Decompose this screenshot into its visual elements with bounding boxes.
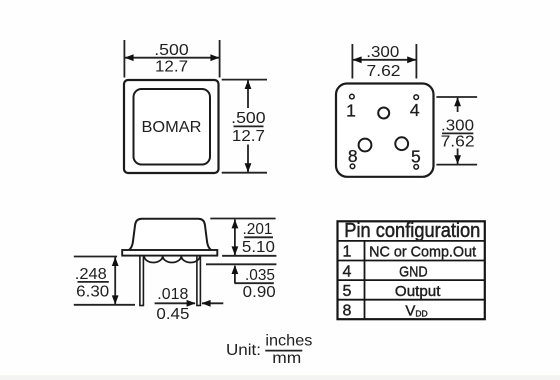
dimension .035/0.90 (standoff) bbox=[206, 264, 276, 301]
svg-text:.300: .300 bbox=[441, 117, 474, 134]
top view outline bbox=[124, 80, 219, 173]
svg-text:.201: .201 bbox=[243, 221, 273, 238]
dimension .300/7.62 horizontal (pin spacing) bbox=[352, 44, 416, 80]
svg-text:7.62: 7.62 bbox=[441, 134, 475, 151]
dimension .500/12.7 horizontal (top view width) bbox=[124, 40, 219, 78]
svg-text:5: 5 bbox=[411, 147, 421, 167]
side view lead left bbox=[140, 254, 144, 306]
svg-text:BOMAR: BOMAR bbox=[142, 119, 202, 136]
svg-text:12.7: 12.7 bbox=[232, 128, 265, 145]
units note bbox=[226, 333, 312, 368]
svg-text:.035: .035 bbox=[245, 267, 275, 284]
svg-text:5: 5 bbox=[343, 283, 352, 300]
pin configuration table bbox=[338, 221, 485, 319]
pin 4 hole bbox=[414, 95, 419, 100]
svg-text:Unit:: Unit: bbox=[226, 342, 261, 359]
svg-text:Pin configuration: Pin configuration bbox=[344, 220, 480, 242]
dimension .500/12.7 vertical (top view height) bbox=[222, 80, 267, 173]
side view glass seal scallops bbox=[144, 256, 200, 263]
bottom edge strip bbox=[0, 375, 560, 380]
svg-text:8: 8 bbox=[348, 146, 358, 166]
svg-text:inches: inches bbox=[265, 333, 312, 350]
pin 5 hole bbox=[414, 165, 419, 170]
svg-text:4: 4 bbox=[343, 263, 352, 280]
svg-text:5.10: 5.10 bbox=[242, 239, 275, 256]
svg-text:.300: .300 bbox=[366, 44, 399, 61]
svg-text:.500: .500 bbox=[154, 42, 189, 59]
svg-text:0.45: 0.45 bbox=[156, 306, 189, 323]
pin 1 hole bbox=[350, 94, 355, 99]
svg-text:.248: .248 bbox=[75, 266, 107, 283]
svg-text:7.62: 7.62 bbox=[367, 63, 401, 80]
dimension .018/0.45 (lead diameter) bbox=[155, 286, 224, 323]
dimension .201/5.10 (can height) bbox=[210, 219, 276, 256]
svg-text:.018: .018 bbox=[157, 286, 188, 303]
hole bottom-left bbox=[359, 139, 372, 152]
svg-text:12.7: 12.7 bbox=[155, 59, 188, 76]
side view flange bbox=[122, 250, 217, 256]
svg-text:1: 1 bbox=[343, 244, 352, 261]
svg-text:0.90: 0.90 bbox=[243, 284, 276, 301]
svg-text:4: 4 bbox=[410, 100, 420, 120]
side view can bbox=[129, 219, 212, 251]
svg-text:1: 1 bbox=[346, 100, 356, 120]
bottom view outline bbox=[336, 84, 434, 177]
center hole top bbox=[378, 108, 389, 119]
svg-text:8: 8 bbox=[343, 302, 352, 319]
dimension .300/7.62 vertical (pin spacing) bbox=[436, 97, 477, 165]
svg-text:6.30: 6.30 bbox=[76, 283, 109, 300]
hole bottom-right bbox=[395, 137, 408, 150]
dimension .248/6.30 (lead length) bbox=[74, 257, 135, 305]
svg-text:GND: GND bbox=[399, 263, 428, 280]
svg-text:.500: .500 bbox=[231, 110, 266, 127]
svg-text:mm: mm bbox=[272, 350, 301, 367]
side view lead right bbox=[197, 254, 201, 306]
pin 8 hole bbox=[350, 164, 355, 169]
svg-text:NC or Comp.Out: NC or Comp.Out bbox=[369, 243, 477, 260]
svg-text:Output: Output bbox=[395, 283, 441, 300]
